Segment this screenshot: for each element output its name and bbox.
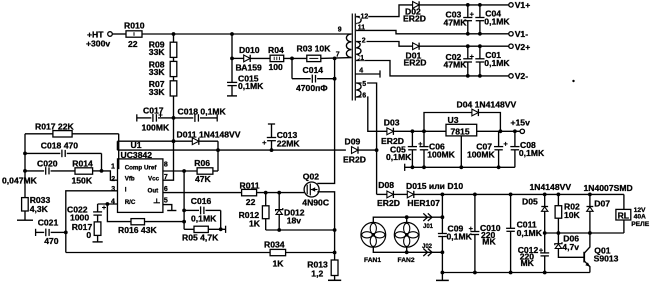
capacitor C014 4700pF snubber loop <box>292 58 335 93</box>
svg-text:D04 1N4148VV: D04 1N4148VV <box>457 99 517 109</box>
node junction R04/R03/C014 left <box>290 57 294 61</box>
node junction D05 line / base rail <box>543 231 547 235</box>
node junction +12 rail / D05 <box>543 193 547 197</box>
svg-text:33K: 33K <box>149 67 166 77</box>
wire pin3 to C021 bus <box>66 191 118 253</box>
wire column R07 down to pin7 jog <box>163 96 174 180</box>
transformer pin 4 stub <box>355 70 380 77</box>
transformer secondary winding pins 2-1 <box>356 42 361 61</box>
svg-text:1N4148VV: 1N4148VV <box>530 182 572 192</box>
wire D011 left end down to Vcc rail <box>116 141 118 150</box>
svg-text:Comp: Comp <box>125 165 143 172</box>
svg-text:8: 8 <box>164 162 168 169</box>
op-amp U1 UC3842 IC box <box>118 140 163 212</box>
capacitor C08 0,1MK <box>510 131 545 167</box>
resistor R07 33K <box>149 79 177 97</box>
svg-text:I: I <box>125 186 127 193</box>
node junction C011 bottom <box>509 271 513 275</box>
svg-text:RL: RL <box>618 210 629 220</box>
node junction C018/R014/pin2 <box>100 169 104 173</box>
svg-text:40A: 40A <box>634 213 646 220</box>
wire Q02 drain lead <box>317 58 334 183</box>
node junction +12 rail / C011 <box>509 193 513 197</box>
node junction D04 right / rail <box>499 129 503 133</box>
node junction rail / R09 column <box>172 32 176 36</box>
capacitor C012 220MK <box>518 233 550 273</box>
diode D09 ER2D <box>343 136 366 164</box>
transformer pin 4 label <box>359 67 365 75</box>
resistor R08 33K <box>149 60 177 77</box>
svg-text:R04: R04 <box>268 45 284 55</box>
resistor R017 0 <box>72 222 103 242</box>
capacitor C07 100MK <box>467 131 508 167</box>
svg-text:0,1MK: 0,1MK <box>386 152 412 162</box>
wire regulator ground rail <box>405 164 515 171</box>
resistor R033 4,3K <box>17 195 50 220</box>
node junction C06 bottom <box>422 165 426 169</box>
svg-text:V1+: V1+ <box>515 0 531 10</box>
node junction C01 top <box>478 44 482 48</box>
svg-text:22: 22 <box>128 39 138 49</box>
svg-text:4: 4 <box>359 68 363 75</box>
wire R09-R08 <box>173 57 175 61</box>
capacitor C018 0,1MK (top) <box>174 107 227 122</box>
svg-text:1,2: 1,2 <box>311 268 323 278</box>
capacitor C06 100MK <box>418 131 455 167</box>
svg-text:22MK: 22MK <box>277 138 301 148</box>
node junction D07/relay/collector <box>588 231 592 235</box>
ground under fan line <box>436 273 449 281</box>
fan FAN1 <box>361 222 386 263</box>
svg-text:V2+: V2+ <box>515 42 531 52</box>
node junction FAN2 bottom <box>405 250 409 254</box>
wire bottom ground rail <box>442 272 590 274</box>
wire pin6 winding down to D03 <box>356 97 387 131</box>
wire FAN2 bottom lead <box>406 247 408 252</box>
svg-text:C016: C016 <box>191 196 212 206</box>
svg-text:Vcc: Vcc <box>148 176 160 183</box>
svg-text:R/C: R/C <box>125 199 136 206</box>
svg-text:ВА159: ВА159 <box>236 62 263 72</box>
svg-text:4,3K: 4,3K <box>30 204 49 214</box>
node junction J01 wire <box>441 215 445 219</box>
svg-text:0: 0 <box>86 230 91 240</box>
node junction +12 rail / D07 <box>588 193 592 197</box>
node junction ground / bottom rail <box>441 271 445 275</box>
transformer pin 1 label <box>360 54 366 62</box>
node junction R016 right <box>182 220 186 224</box>
svg-text:ER2D: ER2D <box>343 154 366 164</box>
node junction C017/C018/column <box>172 116 176 120</box>
svg-text:MK: MK <box>482 236 496 246</box>
wire R04 to R03 <box>284 57 307 59</box>
svg-text:D011 1N4148VV: D011 1N4148VV <box>177 130 241 140</box>
wire D09 cathode to pin5 line <box>358 149 377 151</box>
fan FAN2 <box>394 222 419 263</box>
resistor R012 1K <box>239 193 269 230</box>
svg-text:4N90C: 4N90C <box>302 198 329 208</box>
node junction C016 left <box>182 209 186 213</box>
connector J01 <box>423 213 434 230</box>
svg-text:0,1MK: 0,1MK <box>519 148 545 158</box>
wire base rail D05 node to relay return <box>545 232 624 234</box>
node junction C03 bottom <box>466 32 470 36</box>
svg-text:6: 6 <box>362 92 366 99</box>
diode D011 1N4148VV <box>117 130 240 145</box>
resistor R010 22 <box>124 21 145 49</box>
resistor R02 10K <box>555 194 580 233</box>
capacitor C017 100MK <box>137 105 174 132</box>
wire C016/R05 right vertical <box>220 210 222 229</box>
capacitor C010 220MK <box>469 194 501 272</box>
node junction R011/R012 <box>264 191 268 195</box>
wire R012/D012 bottom to source line <box>266 229 335 231</box>
node open stub tick right of R05 <box>225 226 227 233</box>
wire fan top J01 line <box>373 217 442 222</box>
zener D012 18v <box>276 193 305 230</box>
svg-text:C014: C014 <box>303 65 324 75</box>
svg-text:10K: 10K <box>564 210 581 220</box>
svg-text:6: 6 <box>164 186 168 193</box>
svg-text:C018 0,1MK: C018 0,1MK <box>178 107 227 117</box>
svg-text:R011: R011 <box>240 181 260 191</box>
wire pin5 ground stub <box>163 205 177 211</box>
diode D08 ER2D <box>377 180 408 208</box>
node junction source line / bottom bus <box>333 251 337 255</box>
node junction C05 top <box>411 129 415 133</box>
node junction C021 / pin3 bus <box>64 231 68 235</box>
svg-text:47K: 47K <box>195 174 212 184</box>
svg-text:J02: J02 <box>422 244 433 250</box>
diode D05 1N4148VV <box>522 194 548 233</box>
wire pin5 winding down to D08 row <box>356 83 376 194</box>
diode D03 ER2D <box>381 118 446 146</box>
svg-text:ER2D: ER2D <box>404 58 427 68</box>
svg-text:MK: MK <box>521 258 535 268</box>
wire U3 output to +15v <box>477 130 520 132</box>
svg-text:1: 1 <box>360 55 364 62</box>
svg-text:18v: 18v <box>287 215 302 225</box>
node junction C05 bottom <box>411 165 415 169</box>
node junction C01 bottom <box>478 74 482 78</box>
svg-text:R034: R034 <box>264 240 285 250</box>
svg-text:HER107: HER107 <box>407 198 440 208</box>
wire R06 right lead up to D011 node <box>213 170 218 172</box>
svg-text:0,1MK: 0,1MK <box>238 81 264 91</box>
transformer secondary winding pins 12-11 <box>356 17 361 31</box>
ground under R013 <box>328 279 341 281</box>
svg-text:33K: 33K <box>149 87 166 97</box>
svg-text:R016 43K: R016 43K <box>118 225 157 235</box>
capacitor C016 0,1MK <box>184 196 221 224</box>
transistor Q02 4N90C MOSFET <box>302 172 329 208</box>
diode D010 BA159 <box>232 45 270 72</box>
capacitor C02 47MK <box>444 46 474 76</box>
wire Q02 source lead <box>317 192 334 260</box>
capacitor C021 470 <box>36 218 66 247</box>
transformer core <box>352 14 355 101</box>
svg-text:100: 100 <box>269 62 284 72</box>
svg-text:1N4007SMD: 1N4007SMD <box>584 183 633 193</box>
diode D07 1N4007SMD <box>587 194 611 233</box>
svg-text:1K: 1K <box>273 258 285 268</box>
wire R08-R07 <box>173 77 175 81</box>
node junction pin4 / R016 <box>106 202 110 206</box>
node junction C012 bottom <box>543 271 547 275</box>
svg-text:R017 22K: R017 22K <box>35 122 74 132</box>
resistor R09 33K <box>149 40 177 58</box>
capacitor C022 1000 <box>67 204 106 223</box>
wire fan/C09 vertical line <box>441 194 443 272</box>
svg-text:C020: C020 <box>37 159 58 169</box>
capacitor C018 470 <box>25 141 102 158</box>
resistor R013 1,2 <box>307 260 338 280</box>
wire pin8 Vref to R06 <box>163 170 197 172</box>
svg-text:Uref: Uref <box>144 165 157 172</box>
svg-text:0,047MK: 0,047MK <box>2 175 38 185</box>
node junction left bus / C020 wire <box>23 169 27 173</box>
svg-text:0,1MK: 0,1MK <box>191 214 217 224</box>
node V2- terminal <box>509 71 528 81</box>
wire HT terminal to R010 <box>112 33 126 35</box>
svg-text:R05 4,7K: R05 4,7K <box>182 233 219 243</box>
svg-text:C017: C017 <box>143 105 164 115</box>
svg-text:Out: Out <box>148 187 159 194</box>
svg-text:+15v: +15v <box>511 117 531 127</box>
capacitor C015 0,1MK <box>227 58 264 96</box>
node junction +12 rail / R02 <box>557 193 561 197</box>
node junction C03 top <box>466 3 470 7</box>
capacitor C03 47MK <box>444 5 474 34</box>
node junction C04 bottom <box>478 32 482 36</box>
node junction +12 rail / fan line <box>441 193 445 197</box>
transistor Q01 S9013 <box>584 233 618 273</box>
regulator U3 7815 <box>446 115 477 136</box>
transformer primary winding pins 9-7 <box>336 26 352 58</box>
svg-text:4,7v: 4,7v <box>562 242 579 252</box>
svg-text:0,1MK: 0,1MK <box>484 16 510 26</box>
node junction D012 bottom <box>277 228 281 232</box>
wire D011 cathode down to Vcc rail and R06 <box>217 141 219 171</box>
svg-text:UC3842: UC3842 <box>121 150 153 160</box>
svg-text:0,1MK: 0,1MK <box>447 232 473 242</box>
wire C018 right down to R014 node <box>101 153 103 171</box>
node +15v terminal <box>511 117 531 133</box>
svg-text:9: 9 <box>338 26 342 33</box>
node junction C014 right on drain line <box>333 77 337 81</box>
capacitor C011 0,1MK <box>506 194 543 272</box>
wire jog to pin 2 <box>102 171 118 180</box>
svg-text:C018 470: C018 470 <box>41 141 78 151</box>
svg-text:U1: U1 <box>131 140 142 150</box>
node junction C010 bottom <box>473 271 477 275</box>
wire column top <box>173 34 175 42</box>
resistor R03 10K <box>297 44 332 62</box>
svg-text:J01: J01 <box>423 224 434 230</box>
svg-text:100MK: 100MK <box>427 150 455 160</box>
svg-text:0,1MK: 0,1MK <box>517 228 543 238</box>
node junction +12 rail / C010 <box>473 193 477 197</box>
wire U3 ground lead <box>460 136 462 167</box>
diode D04 1N4148VV bypass loop <box>424 99 516 131</box>
svg-text:47MK: 47MK <box>444 17 468 27</box>
transformer pin 12 label <box>360 13 369 21</box>
node junction left bus / C018 <box>23 152 27 156</box>
node junction FAN2 top <box>405 215 409 219</box>
node junction C08 top <box>513 129 517 133</box>
node junction U3 gnd <box>459 165 463 169</box>
node junction R03/C014 right/drain <box>333 57 337 61</box>
svg-text:D015 или D10: D015 или D10 <box>406 181 463 191</box>
resistor R04 100 <box>268 45 284 72</box>
wire FAN2 top lead <box>406 217 408 222</box>
transformer pin 5 label <box>362 80 368 88</box>
node stray mark <box>572 80 574 82</box>
svg-text:2: 2 <box>362 37 366 44</box>
capacitor C04 0,1MK <box>475 5 510 34</box>
connector J02 <box>422 244 433 256</box>
zener D06 4,7v <box>555 233 584 257</box>
svg-text:FAN1: FAN1 <box>364 257 381 264</box>
node junction column / D011 anode <box>172 139 176 143</box>
svg-text:S9013: S9013 <box>594 254 619 264</box>
capacitor C01 0,1MK <box>475 46 510 76</box>
wire Vcc rail <box>117 149 346 151</box>
wire pin11 to V1- rail <box>356 30 509 33</box>
resistor R011 22 <box>240 181 260 207</box>
resistor R05 4,7K <box>182 226 226 242</box>
svg-text:1K: 1K <box>249 218 261 228</box>
capacitor C020 0,047MK <box>2 159 75 186</box>
wire pin2 to D01 rail <box>356 42 412 47</box>
node junction C07 bottom <box>497 165 501 169</box>
svg-text:V2-: V2- <box>515 71 529 81</box>
node junction rail / D010 branch <box>230 32 234 36</box>
svg-text:22: 22 <box>246 197 256 207</box>
transformer pin 11 label <box>357 24 366 32</box>
svg-text:R010: R010 <box>124 21 145 31</box>
svg-text:ER2D: ER2D <box>377 198 400 208</box>
svg-text:33K: 33K <box>149 47 166 57</box>
svg-text:0,1MK: 0,1MK <box>484 58 510 68</box>
svg-text:11: 11 <box>358 24 366 31</box>
svg-text:100MK: 100MK <box>467 150 495 160</box>
resistor R034 1K <box>264 240 286 269</box>
transformer auxiliary winding pins 5-6 <box>356 83 361 97</box>
svg-text:100MK: 100MK <box>142 122 170 132</box>
capacitor C05 0,1MK <box>386 131 417 167</box>
transformer pin 2 label <box>361 37 367 45</box>
svg-text:R014: R014 <box>72 159 93 169</box>
transformer pin 6 label <box>362 92 368 100</box>
wire R017 right down to pin1 <box>118 134 119 169</box>
svg-text:7815: 7815 <box>451 126 470 136</box>
relay RL 12V 40A <box>616 194 650 233</box>
node junction C013 on Vcc rail <box>270 148 274 152</box>
svg-text:12: 12 <box>361 13 369 20</box>
svg-text:7: 7 <box>164 174 168 181</box>
svg-text:R03 10K: R03 10K <box>297 44 332 54</box>
svg-text:4700пФ: 4700пФ <box>296 83 328 93</box>
wire D010 branch from rail <box>231 34 233 58</box>
node junction D011/R06 branch on Vcc rail <box>216 148 220 152</box>
svg-text:D07: D07 <box>594 199 610 209</box>
wire R03 to pin7 node and transformer <box>321 57 352 60</box>
svg-text:470: 470 <box>44 236 59 246</box>
svg-text:D03: D03 <box>384 118 400 128</box>
svg-text:2: 2 <box>111 176 115 183</box>
svg-text:47MK: 47MK <box>444 59 468 69</box>
wire +300V rail to transformer pin 9 <box>142 33 352 35</box>
node junction R02 bottom / D06 <box>557 231 561 235</box>
node junction C02 bottom <box>466 74 470 78</box>
node junction C04 top <box>478 3 482 7</box>
svg-text:+300v: +300v <box>86 39 110 49</box>
svg-text:D09: D09 <box>345 136 361 146</box>
diode D02 ER2D <box>403 1 509 23</box>
svg-text:D010: D010 <box>239 45 260 55</box>
svg-text:FAN2: FAN2 <box>398 257 415 264</box>
svg-text:R06: R06 <box>194 158 210 168</box>
svg-text:D08: D08 <box>378 180 394 190</box>
svg-text:5: 5 <box>164 198 168 205</box>
node junction pin8 wire / C016 branch <box>182 169 186 173</box>
svg-text:D05: D05 <box>522 196 538 206</box>
node +HT input terminal <box>86 30 112 49</box>
svg-text:C021: C021 <box>38 218 59 228</box>
capacitor C09 0,1MK <box>438 224 473 242</box>
wire fan bottom J02 line <box>373 247 442 252</box>
wire bottom bus pin3 to MOSFET source <box>66 252 335 254</box>
resistor R016 43K <box>107 204 184 235</box>
node junction C06/D04 top <box>422 129 426 133</box>
node junction D010 anode / C015 <box>230 57 234 61</box>
node V1- terminal <box>509 29 528 39</box>
node junction source line / R012 rail <box>333 228 337 232</box>
svg-text:Q02: Q02 <box>303 172 319 182</box>
node junction D012 top <box>277 191 281 195</box>
wire pin6 Out to gate network <box>163 192 304 194</box>
resistor R06 47K <box>194 158 213 184</box>
node V2+ terminal <box>509 42 530 52</box>
wire pin4 <box>98 203 118 205</box>
node junction J02 wire <box>441 250 445 254</box>
resistor R014 150K <box>72 159 102 186</box>
node V1+ terminal <box>509 0 530 10</box>
capacitor C013 22MK <box>262 124 300 150</box>
wire pin1 to V2- rail <box>356 61 509 76</box>
wire pin12 to D02 rail <box>356 5 412 17</box>
diode D015 HER107 <box>406 181 624 208</box>
svg-text:Vfb: Vfb <box>125 176 135 183</box>
svg-text:V1-: V1- <box>515 29 529 39</box>
resistor R017 22K <box>25 122 119 137</box>
node junction R05 right <box>219 227 223 231</box>
svg-text:5: 5 <box>362 81 366 88</box>
node junction C02 top <box>466 44 470 48</box>
wire left bus vertical <box>24 134 26 198</box>
diode D01 ER2D <box>404 43 509 68</box>
svg-text:150K: 150K <box>72 175 93 185</box>
node junction D09 / pin5 line <box>375 148 379 152</box>
svg-text:1: 1 <box>111 164 115 171</box>
svg-text:U3: U3 <box>448 115 459 125</box>
svg-text:РЕЛЕ: РЕЛЕ <box>631 221 650 228</box>
wire vertical C016 bus from pin8 wire <box>183 171 185 229</box>
svg-text:3: 3 <box>111 186 115 193</box>
svg-text:ER2D: ER2D <box>403 14 426 24</box>
svg-text:7: 7 <box>336 51 340 58</box>
